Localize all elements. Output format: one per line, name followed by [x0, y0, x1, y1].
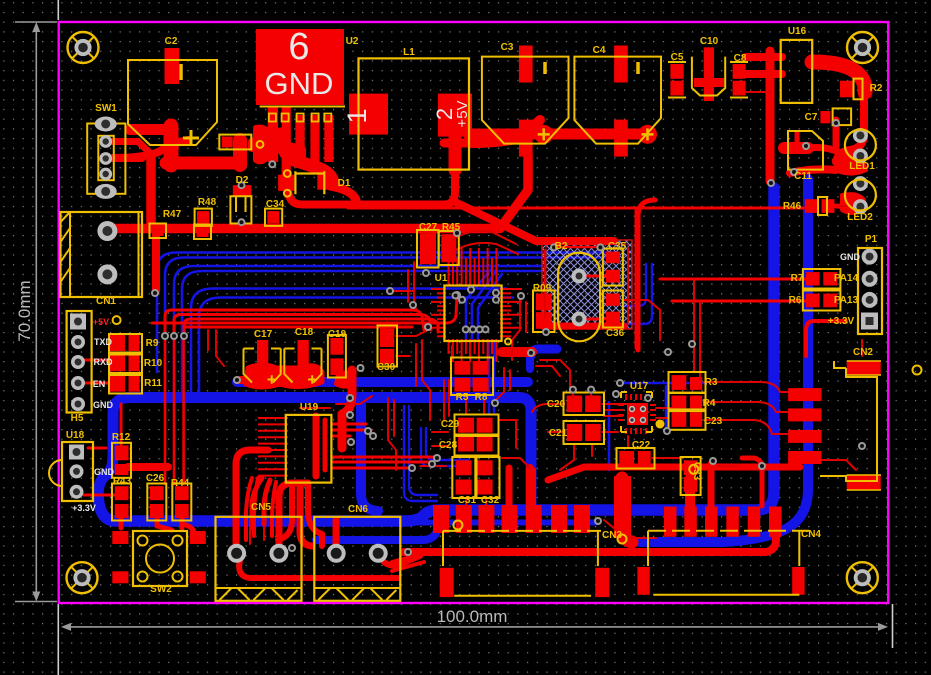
wire CN5-CN6 bottom run	[239, 560, 398, 578]
resistor R6 pad 2	[823, 294, 837, 308]
capacitor C18 pad	[298, 340, 309, 370]
wire CN6 pad1 up	[333, 520, 340, 548]
ic U1 left pins	[431, 288, 446, 290]
wire U19 below to CN6	[300, 484, 312, 546]
wire SW1 vertical	[146, 157, 156, 224]
svg-text:C18: C18	[295, 327, 314, 338]
wire texture e C31 down	[465, 498, 467, 506]
wire blob under pins	[262, 140, 300, 162]
battery holder outline	[128, 60, 217, 145]
wire blue C31 pair	[421, 428, 468, 466]
resistor R46 mid mark	[818, 197, 827, 215]
capacitor C21 pad	[567, 424, 583, 441]
capacitor C10 bar	[694, 78, 724, 87]
resistor R46 pad 2	[822, 199, 835, 213]
via	[802, 142, 810, 150]
wire texture a	[407, 270, 409, 302]
header H5 pad TXD	[71, 335, 85, 349]
regulator U2 tab pad	[256, 29, 344, 105]
wire U18 pad3 stub	[84, 494, 122, 497]
svg-text:CN3: CN3	[602, 530, 622, 541]
diode D1 pad left	[278, 175, 294, 191]
ic U19 outline	[286, 415, 332, 483]
via	[596, 243, 604, 251]
connector CN2 pad bottom	[847, 475, 881, 490]
wire +5V bundle 3	[184, 319, 438, 334]
wire U19 fan to CN5 c	[272, 482, 276, 536]
svg-text:C17: C17	[254, 329, 273, 340]
regulator U18 pad 3	[70, 485, 84, 499]
connector CN3 pad 4	[502, 505, 518, 533]
svg-text:C33: C33	[691, 462, 702, 481]
wire C20 top stubs	[572, 392, 574, 398]
ic U1 top pins	[448, 258, 450, 286]
connector CN6 outline	[314, 517, 400, 601]
wire C17 pad stem	[258, 352, 267, 370]
svg-text:+5V: +5V	[93, 317, 109, 327]
capacitor C19 outline	[328, 335, 346, 378]
wire CN6 pad2 link	[378, 548, 420, 566]
ic U17 pins	[625, 394, 627, 400]
connector CN4 pad 5	[748, 507, 761, 537]
vertical dimension line 70.0mm	[32, 22, 40, 602]
wire D1 to pad2 trace	[288, 136, 455, 205]
resistor R3 pad 2	[690, 377, 702, 390]
wire texture p left of C17	[216, 330, 224, 366]
wire H5 EN stub	[84, 382, 108, 385]
wire texture q CN5 region	[249, 520, 251, 544]
wire blue vertical D	[640, 179, 808, 542]
wire U19 left bundle down2	[264, 480, 270, 524]
via	[476, 325, 484, 333]
capacitor C17 pad	[257, 340, 268, 370]
via	[433, 454, 441, 462]
wire U18 pad1 stub	[88, 447, 106, 450]
via	[238, 218, 246, 226]
wire U16 right blob to R2	[812, 62, 865, 92]
via	[357, 364, 365, 372]
wire U19 right pin 5	[332, 461, 430, 464]
resistor R6 outline	[803, 291, 841, 311]
wire B2 pad1 link	[586, 275, 604, 278]
svg-text:C5: C5	[671, 52, 684, 63]
wire blue thin fan 5	[191, 289, 506, 394]
crystal B2 pad 1	[572, 269, 587, 284]
svg-text:C29: C29	[441, 419, 460, 430]
wire texture c	[422, 340, 430, 420]
crystal B2 pad 2	[572, 312, 587, 327]
wire blue bus band B (mid horizontal)	[98, 398, 519, 497]
wire U19 bottom feed 1	[278, 484, 292, 540]
via	[758, 462, 766, 470]
svg-text:C28: C28	[439, 440, 458, 451]
resistor R10 pad 1	[110, 355, 125, 372]
via	[386, 287, 394, 295]
connector CN1 pad 1	[97, 221, 117, 241]
resistor R45 outline	[439, 231, 459, 265]
wire C33 to CN4 bar2	[685, 478, 695, 506]
capacitor C28b pad	[477, 437, 493, 452]
capacitor C19 pad 2	[330, 358, 343, 375]
mounting hole	[68, 32, 99, 63]
wire CN4 bar4 stem	[742, 458, 762, 506]
wire U19 fan to CN5 a	[246, 478, 252, 540]
via	[542, 328, 550, 336]
wire battery vertical	[164, 126, 179, 165]
svg-text:GND: GND	[94, 467, 115, 477]
wire via to R43 vertical	[164, 338, 167, 484]
via	[492, 289, 500, 297]
capacitor C28a pad	[458, 437, 474, 452]
svg-text:R43: R43	[113, 476, 132, 487]
wire C6 pad link	[444, 139, 470, 148]
via	[364, 427, 372, 435]
wire R6 net	[672, 300, 806, 303]
capacitor C20 outline	[564, 393, 605, 416]
via	[858, 442, 866, 450]
resistor R4 pad 1	[672, 396, 687, 409]
svg-text:C23: C23	[704, 416, 723, 427]
capacitor C17 outline	[244, 349, 281, 383]
wire C11 red bar	[784, 142, 808, 154]
header P1 outline	[858, 248, 882, 334]
switch SW2 pad 4	[190, 571, 206, 583]
wire staircase left2	[392, 562, 424, 571]
wire blob to via	[239, 376, 247, 384]
capacitor C6 pad	[222, 137, 233, 148]
via	[346, 411, 354, 419]
via	[462, 325, 470, 333]
connector CN2 bar 2	[788, 408, 821, 421]
svg-text:SW2: SW2	[150, 584, 172, 595]
wire blue thin fan 3	[174, 266, 545, 395]
wire +5V bundle 4	[152, 297, 457, 323]
via	[346, 394, 354, 402]
svg-text:U19: U19	[300, 402, 319, 413]
header H5 outline	[67, 311, 92, 413]
wire R12 to via	[128, 463, 168, 471]
svg-text:R47: R47	[163, 209, 182, 220]
wire C17C18 blob	[246, 365, 322, 387]
capacitor C3 outline	[482, 57, 569, 144]
wire +5V bundle 1	[165, 310, 424, 334]
wire texture k top of U1 bundle bend	[452, 231, 516, 244]
capacitor C7 pad	[820, 111, 830, 123]
wire texture l C30 to U1	[396, 330, 428, 336]
capacitor C4 outline	[574, 57, 661, 144]
wire blue bottom band C	[98, 188, 774, 521]
switch SW2 pad 2	[190, 531, 206, 544]
capacitor C3 pad bottom	[519, 120, 533, 157]
via yellow4	[689, 465, 698, 474]
connector CN3 outline	[443, 531, 601, 596]
wire CN5 pad2 up	[279, 483, 308, 548]
wire texture t P1 area	[861, 340, 863, 356]
wire pad2 to crystal diagonal	[457, 203, 614, 241]
svg-text:R8: R8	[475, 392, 488, 403]
via	[517, 292, 525, 300]
switch SW2 pad 1	[112, 531, 128, 544]
connector CN3 pad 7	[574, 505, 590, 533]
svg-text:R7: R7	[791, 273, 804, 284]
capacitor C5 pad 2	[670, 81, 683, 96]
resistor R47 pad 2	[197, 227, 209, 237]
svg-text:C32: C32	[481, 495, 500, 506]
wire U19 right pin 3	[332, 435, 350, 438]
wire LED2 link	[842, 194, 864, 213]
mounting hole	[67, 562, 98, 593]
capacitor C2 pad	[165, 48, 180, 84]
svg-text:LED1: LED1	[849, 161, 875, 172]
inductor L1 pad 1	[349, 94, 388, 135]
via yellow u1	[505, 339, 511, 345]
wire U19 right pin 4	[332, 456, 435, 459]
svg-text:U17: U17	[630, 381, 649, 392]
resistor R2 pad 2	[859, 81, 872, 98]
wire B2 pad2 link	[586, 318, 604, 321]
svg-text:R3: R3	[705, 377, 718, 388]
led LED2 cathode	[853, 199, 868, 214]
capacitor C34 outline	[265, 209, 282, 226]
capacitor C8 pad 1	[733, 64, 746, 79]
capacitor C23 pad 1	[672, 412, 687, 427]
capacitor C10 body	[704, 47, 714, 101]
horizontal dimension line 100.0mm	[61, 623, 888, 631]
ic U1 bottom pins	[448, 339, 450, 354]
header P1 pad PA13	[862, 292, 878, 308]
wire U16 stub1	[746, 53, 782, 61]
resistor R12 pad 1	[115, 445, 129, 460]
wire C6 right to pins	[470, 120, 540, 143]
via	[767, 179, 775, 187]
via	[587, 386, 595, 394]
wire texture h R3R4 to CN2	[704, 382, 788, 392]
via	[644, 394, 652, 402]
via	[452, 292, 460, 300]
svg-text:CN5: CN5	[251, 502, 271, 513]
diode D2 outline	[230, 196, 251, 223]
wire staircase left1	[392, 556, 414, 562]
via	[458, 296, 466, 304]
wire texture center1	[512, 300, 520, 360]
wire U16 stub2	[746, 70, 782, 78]
connector CN3 pad 5	[526, 505, 542, 533]
via	[527, 349, 535, 357]
ic U17 via	[640, 406, 646, 412]
connector CN4 outline	[648, 531, 809, 595]
regulator U18 pad 1	[69, 445, 84, 460]
wire hatch top trace	[554, 246, 600, 249]
svg-text:GND: GND	[265, 66, 334, 101]
resistor R11 pad 2	[129, 375, 140, 392]
resistor R3 outline	[669, 372, 706, 393]
resistor R4 pad 2	[690, 396, 702, 409]
via	[469, 325, 477, 333]
connector CN4 pad 2	[684, 507, 697, 537]
switch SW1 pin 2	[99, 152, 112, 165]
wire CN5 pad1 up	[236, 450, 268, 548]
wire crystal bottom thick	[545, 323, 624, 330]
resistor R12 outline	[112, 443, 131, 478]
svg-text:R45: R45	[442, 222, 461, 233]
wire U19 inner 2	[323, 420, 328, 470]
capacitor C28 outline	[455, 435, 499, 456]
svg-text:R46: R46	[783, 201, 802, 212]
via	[491, 399, 499, 407]
svg-text:D2: D2	[236, 175, 249, 186]
wire texture d U1 bottom to C28	[451, 346, 453, 360]
wire C7 to LED area	[833, 120, 840, 150]
svg-text:70.0mm: 70.0mm	[15, 280, 34, 341]
crystal B2 outline	[558, 253, 600, 342]
wire C18 pad stem	[298, 352, 307, 370]
regulator U2 pin 1	[268, 106, 278, 162]
wire texture o center verticals	[443, 380, 445, 420]
capacitor C8 marks	[730, 62, 748, 98]
svg-text:R44: R44	[171, 478, 190, 489]
svg-text:R5: R5	[456, 392, 469, 403]
via	[369, 432, 377, 440]
via	[151, 289, 159, 297]
wire texture m U17 fan right	[656, 407, 672, 409]
resistor R47 outline a	[150, 224, 167, 239]
resistor R7 pad 1	[806, 272, 820, 285]
battery plus mark	[183, 130, 199, 146]
wire via to C26 vertical	[173, 338, 176, 484]
via	[709, 457, 717, 465]
regulator U18 pad 2	[70, 464, 84, 478]
wire +3.3V P1 trace	[806, 321, 846, 356]
resistor R44 pad 1	[175, 486, 189, 500]
svg-text:R48: R48	[198, 197, 217, 208]
switch SW1 pin 1	[99, 135, 112, 148]
wire texture center6	[388, 398, 396, 470]
header H5 pad GND	[71, 397, 85, 411]
resistor R11 pad 1	[110, 375, 125, 392]
wire D1 right curve	[330, 186, 356, 200]
svg-text:H5: H5	[71, 413, 84, 424]
wire U19 left bundle down	[252, 478, 262, 528]
capacitor C3 pad top	[519, 46, 533, 83]
svg-text:C21: C21	[549, 428, 568, 439]
capacitor C26 pad 1	[150, 486, 164, 500]
connector CN2 pad top	[847, 361, 881, 375]
resistor R5 pad 1	[454, 361, 470, 375]
header P1 pad GND	[862, 249, 878, 265]
svg-text:CN1: CN1	[96, 296, 116, 307]
capacitor C26 pad 2	[150, 504, 164, 518]
mounting hole	[847, 562, 878, 593]
svg-text:C2: C2	[165, 36, 178, 47]
connector CN5 pad 2	[269, 544, 288, 563]
resistor R10 pad 2	[129, 355, 140, 372]
resistor R9 pad 1	[110, 334, 125, 351]
svg-text:C3: C3	[501, 42, 514, 53]
svg-text:CN2: CN2	[853, 347, 873, 358]
via	[467, 286, 475, 294]
wire +5V bundle 2	[174, 315, 431, 335]
connector CN4 pad 3	[705, 507, 718, 537]
svg-text:C31: C31	[458, 495, 477, 506]
wire blue thin fan 6	[199, 298, 513, 394]
svg-text:R10: R10	[144, 358, 163, 369]
svg-text:C19: C19	[328, 329, 347, 340]
wire blue U1 to C29	[488, 342, 491, 414]
regulator U2 pin 4	[310, 115, 319, 162]
capacitor C36 outline	[603, 291, 623, 328]
via	[790, 168, 798, 176]
capacitor C30 pad 2	[380, 349, 394, 364]
svg-text:PA14: PA14	[834, 273, 859, 284]
connector CN6 pad 2	[369, 544, 388, 563]
svg-text:C7: C7	[805, 112, 818, 123]
led LED2 anode	[853, 176, 868, 191]
wire blue U17 area	[620, 382, 706, 385]
via	[424, 323, 432, 331]
wire H5 RXD stub	[84, 359, 108, 362]
svg-text:R12: R12	[112, 432, 131, 443]
resistor R44 outline	[172, 484, 191, 521]
wire CN1 pad to R47	[112, 224, 150, 234]
wire R47 horizontal net	[148, 155, 528, 229]
capacitor C5 marks	[668, 62, 686, 98]
via yellow3	[913, 366, 922, 375]
capacitor C22 pad 2	[638, 451, 651, 466]
capacitor C30 pad 1	[380, 329, 394, 347]
connector CN3 tab right	[595, 568, 609, 597]
led LED1 ring	[845, 130, 876, 161]
resistor R43 pad 2	[115, 504, 129, 518]
via	[616, 379, 624, 387]
capacitor C33 outline	[681, 457, 701, 495]
wire texture f C20 links	[602, 404, 648, 412]
via	[550, 243, 558, 251]
via	[180, 332, 188, 340]
resistor R8 pad 1	[473, 361, 489, 375]
via	[663, 427, 671, 435]
wire blue under U1 vertical bundle	[466, 268, 492, 340]
via	[161, 332, 169, 340]
svg-text:CN6: CN6	[348, 504, 368, 515]
via	[347, 438, 355, 446]
via	[569, 386, 577, 394]
wire via to R44 vertical	[182, 338, 185, 484]
capacitor C33 pad 2	[684, 477, 698, 492]
led LED1 anode	[853, 128, 868, 143]
wire texture U17 left links	[604, 409, 622, 411]
resistor R3 pad 1	[672, 375, 687, 390]
regulator U18 outline	[62, 442, 93, 501]
via	[428, 460, 436, 468]
wire texture r right bottom diag	[604, 520, 656, 538]
led LED1 cathode	[853, 149, 868, 164]
svg-text:C35: C35	[608, 241, 627, 252]
wire U2 left blob	[256, 128, 268, 162]
capacitor C23 pad 2	[690, 412, 702, 427]
via yellow d1a	[284, 170, 291, 177]
wire thick red center bottom	[404, 522, 776, 552]
wire texture g C22	[627, 436, 629, 448]
header H5 pad RXD	[71, 355, 85, 369]
capacitor C29 outline	[455, 415, 499, 437]
wire SW1 feed pin1	[108, 142, 152, 156]
wire R46 net left long	[348, 207, 804, 210]
resistor R49 pad 1	[536, 294, 552, 311]
wire blue around C29 cluster	[404, 406, 437, 501]
header H5 pad EN	[71, 376, 85, 390]
resistor R8 pad 2	[473, 378, 489, 392]
via	[238, 181, 246, 189]
